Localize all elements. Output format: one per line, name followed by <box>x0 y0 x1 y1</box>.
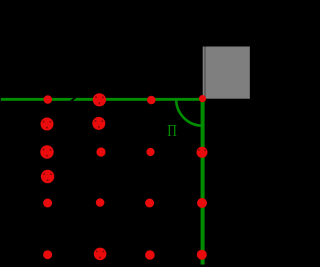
lattice dot (47.8, 99.5) small <box>44 95 53 104</box>
lattice dot cluster (47, 124) big <box>41 118 54 131</box>
angle arc <box>176 99 202 125</box>
lattice dot cluster (202, 152.3) big on y-axis <box>197 147 208 158</box>
lattice dot (47.6, 203) medium <box>43 199 52 208</box>
lattice dot cluster (47.6, 176.5) big <box>41 170 54 183</box>
gray square (fundamental domain) <box>203 47 250 99</box>
svg-text:Π: Π <box>167 121 177 140</box>
lattice dot cluster (100.1, 253.9) big <box>94 248 107 261</box>
lattice dot (202, 203) medium on y-axis <box>197 198 207 208</box>
y-axis (vertical green line) <box>201 97 205 265</box>
x-axis (horizontal green line) <box>1 98 205 101</box>
lattice dot (202.5, 98.5) at origin <box>199 95 206 102</box>
lattice dot (101, 152) medium <box>96 147 105 156</box>
lattice dot cluster (47, 152) big <box>40 145 53 158</box>
lattice dot (151.3, 100) small <box>147 96 156 105</box>
lattice dot (149.6, 203) medium <box>145 199 154 208</box>
lattice dot cluster (99.4, 99.8) big <box>93 93 106 106</box>
axis break slash on x-axis <box>69 96 77 103</box>
lattice dot (47.6, 254.7) medium <box>43 250 52 259</box>
lattice dot (201.8, 254.7) medium on y-axis <box>197 250 207 260</box>
lattice dot (150.5, 152) small <box>146 148 154 156</box>
lattice dot (149.9, 255) medium <box>145 250 155 260</box>
lattice dot (100.1, 202.5) small <box>96 198 105 207</box>
lattice dot cluster (98.8, 123.4) big <box>92 117 105 130</box>
